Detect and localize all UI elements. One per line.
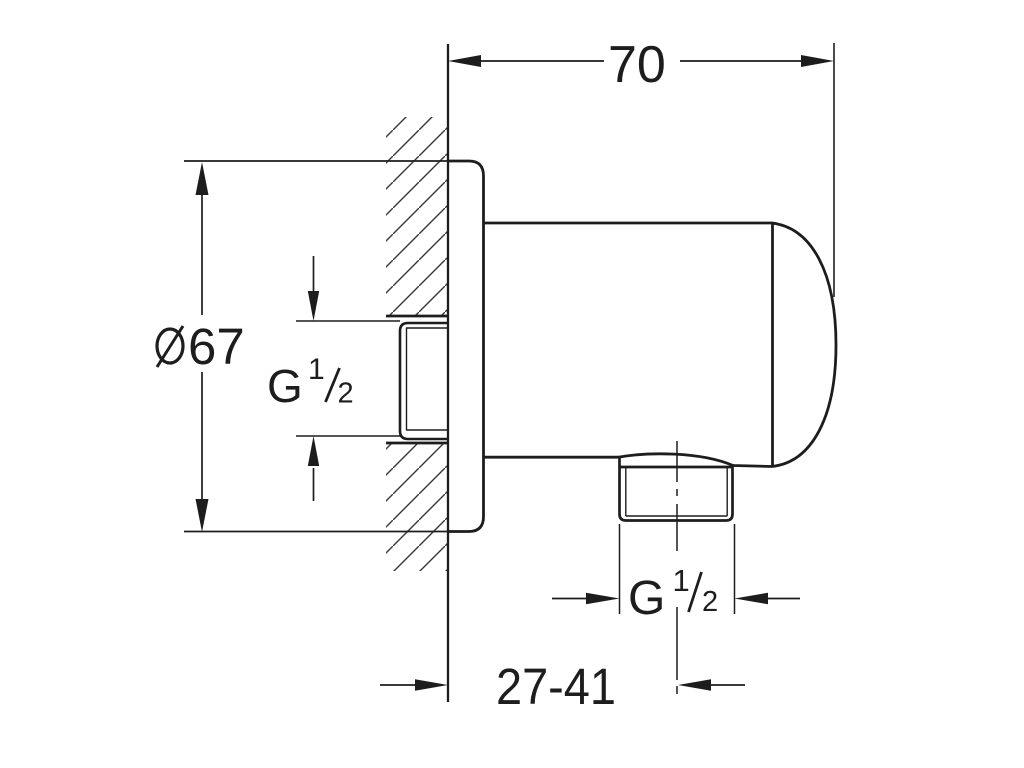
label G 1/2 wall bbox=[267, 353, 354, 412]
svg-text:1: 1 bbox=[673, 563, 690, 598]
body cap joint line bbox=[771, 223, 774, 467]
body top line bbox=[484, 222, 773, 225]
flange bottom extension line bbox=[184, 531, 448, 533]
body bottom left line bbox=[483, 456, 618, 459]
svg-text:70: 70 bbox=[608, 36, 666, 94]
wall hole top edge bbox=[386, 315, 448, 318]
svg-text:67: 67 bbox=[188, 318, 245, 375]
threaded socket outline bbox=[400, 323, 448, 439]
svg-text:G: G bbox=[267, 360, 303, 412]
dimension O67 line bbox=[201, 193, 203, 501]
outlet thread lines bbox=[626, 467, 727, 516]
dimension 27-41 right arrow bbox=[678, 679, 745, 691]
dimension G 1/2 outlet right arrow bbox=[735, 593, 801, 605]
socket thread lines bbox=[406, 328, 448, 430]
dimension 70 extension line bbox=[833, 43, 835, 297]
label O67 diameter symbol bbox=[157, 326, 183, 367]
body end cap bbox=[772, 223, 836, 467]
dimension 70 right arrowhead bbox=[801, 55, 834, 67]
dimension G 1/2 outlet extension lines bbox=[620, 524, 735, 614]
svg-text:2: 2 bbox=[702, 586, 718, 618]
label G 1/2 outlet bbox=[628, 563, 718, 625]
small dimension bottom arrow bbox=[296, 436, 402, 501]
wall hatching lower bbox=[386, 443, 448, 571]
outlet centerline bbox=[676, 441, 678, 694]
outlet fitting outline bbox=[620, 457, 733, 521]
dimension O67 bottom arrowhead bbox=[196, 499, 209, 532]
flange top extension line bbox=[184, 160, 448, 162]
dimension 70 left arrowhead bbox=[448, 55, 481, 67]
svg-text:27-41: 27-41 bbox=[496, 658, 616, 715]
svg-text:1: 1 bbox=[308, 353, 325, 386]
body shoulder over outlet bbox=[618, 454, 772, 467]
svg-text:G: G bbox=[628, 572, 665, 625]
wall hole bottom edge bbox=[386, 442, 448, 445]
svg-text:2: 2 bbox=[338, 378, 354, 410]
dimension G 1/2 outlet left arrow bbox=[552, 593, 620, 605]
wall hatching upper bbox=[386, 117, 448, 316]
small dimension top arrow bbox=[296, 256, 400, 321]
dimension 70 line bbox=[481, 60, 801, 62]
flange outline bbox=[448, 161, 484, 532]
wall line bbox=[447, 44, 449, 702]
dimension 27-41 left arrow bbox=[380, 679, 448, 691]
dimension O67 top arrowhead bbox=[196, 162, 209, 195]
